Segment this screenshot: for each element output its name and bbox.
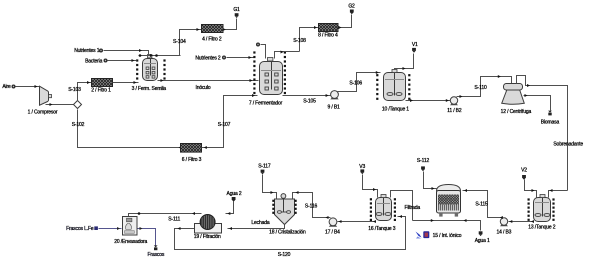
svg-text:S-112: S-112 <box>417 158 430 164</box>
tank 16 / Tanque 3 <box>370 198 372 200</box>
svg-text:S-111: S-111 <box>168 217 180 223</box>
svg-text:10 /Tanque 1: 10 /Tanque 1 <box>382 107 409 113</box>
tank 10 / Tanque 1 <box>376 74 378 76</box>
wire Aire to compressor <box>16 86 40 88</box>
annotation icons (blue) <box>416 232 422 238</box>
output port V2 <box>522 175 526 178</box>
svg-text:4 / Fitro 2: 4 / Fitro 2 <box>202 36 222 42</box>
svg-text:Nutrientes 2: Nutrientes 2 <box>195 56 221 62</box>
wire S-104 seed vent to Filtro 2 <box>180 30 202 56</box>
wire S-106 pump B1 to Tanque 1 <box>338 73 381 92</box>
wire Frascos out of envasadora <box>138 229 156 246</box>
svg-text:Sobrenadante: Sobrenadante <box>553 141 583 147</box>
output port Frascos <box>154 245 158 247</box>
wire Agua 2 into filter 19 <box>226 202 234 214</box>
wire Tanque 2 to pump B3 <box>509 221 534 223</box>
wire S-103 junction to Filtro 1 <box>78 83 92 102</box>
svg-text:Frascos L.Fe: Frascos L.Fe <box>66 226 94 232</box>
svg-text:S-117: S-117 <box>258 164 271 170</box>
tank 13 / Tanque 2 <box>528 198 530 200</box>
svg-text:Filtrada: Filtrada <box>405 205 421 211</box>
wire compressor to junction <box>46 104 74 106</box>
wire Sobrenadante into Tanque 2 <box>549 191 568 198</box>
svg-text:2 / Fitro 1: 2 / Fitro 1 <box>91 87 111 93</box>
wire Lechada crystallizer to filter 19 <box>228 225 285 229</box>
wire V3 vent of Tanque 3 <box>363 175 378 198</box>
wire Inoculo seed fermentor to fermentor 7 <box>158 80 259 82</box>
svg-text:9 / B1: 9 / B1 <box>328 104 341 110</box>
svg-text:G1: G1 <box>233 7 240 13</box>
seed fermentor 3 / Ferm. Semila <box>136 59 138 61</box>
svg-text:S-104: S-104 <box>173 39 186 45</box>
filter 8 / Filtro 4 <box>319 24 339 32</box>
svg-text:S-115: S-115 <box>475 202 488 208</box>
wire Nutrientes 2 <box>227 57 254 59</box>
wire Filtro 2 to G1 <box>223 19 237 30</box>
wire S-117 into crystallizer <box>263 175 277 199</box>
wire Nutrientes 1 <box>104 51 149 56</box>
svg-text:S-106: S-106 <box>349 81 362 87</box>
svg-text:S-107: S-107 <box>218 122 231 128</box>
input port Agua 2 <box>232 197 236 200</box>
wire S-102 junction down to Filtro 3 <box>78 110 181 148</box>
svg-text:S-120: S-120 <box>278 252 291 258</box>
svg-text:15 / Int. iónico: 15 / Int. iónico <box>433 233 462 239</box>
centrifuge 12 / Centrifuga <box>504 84 523 91</box>
filter 4 / Filtro 2 <box>202 25 224 33</box>
svg-text:Agua 2: Agua 2 <box>227 191 242 197</box>
svg-text:16 /Tanque 3: 16 /Tanque 3 <box>368 226 395 232</box>
wire Frascos L.Fe to envasadora <box>99 228 122 230</box>
svg-text:V3: V3 <box>359 164 365 170</box>
svg-text:17 / B4: 17 / B4 <box>325 229 340 235</box>
svg-text:1 / Compresor: 1 / Compresor <box>28 110 58 116</box>
ion exchange column 15 / Int. Ionico <box>437 185 461 192</box>
svg-text:S-105: S-105 <box>303 99 316 105</box>
svg-text:S-116: S-116 <box>305 204 318 210</box>
wire S-105 fermentor to pump B1 <box>283 95 331 97</box>
wire air Filtro 1 to seed fermentor <box>113 82 139 84</box>
wire Tanque 1 vent to V1 <box>395 54 414 70</box>
wire Tanque 3 to pump B4 <box>338 221 376 223</box>
svg-text:S-102: S-102 <box>72 122 85 128</box>
crystallizer 18 / Cristalizacion <box>275 199 295 225</box>
svg-text:V1: V1 <box>412 42 418 48</box>
junction node (air splitter) <box>74 101 82 109</box>
svg-text:18 / Cristalización: 18 / Cristalización <box>269 229 306 235</box>
filter 2 / Filtro 1 <box>92 79 113 87</box>
svg-text:Lechada: Lechada <box>251 220 270 226</box>
wire supernatant centrifuge to Sobrenadante <box>517 76 568 191</box>
svg-text:3 / Ferm. Semila: 3 / Ferm. Semila <box>132 86 167 92</box>
wire S-112 into Int. Ionico <box>424 172 437 189</box>
compressor 1 / Compresor <box>40 86 49 105</box>
wire fermentor vent to S-108 <box>275 52 300 59</box>
svg-text:Bacteria: Bacteria <box>85 58 103 64</box>
svg-text:19 / Fitración: 19 / Fitración <box>194 234 221 240</box>
input port Nutrientes 2 <box>222 56 226 60</box>
wire S-120 filtrate recycle to Tanque 3 <box>175 217 406 250</box>
rotary filter 19 / Filtracion <box>195 224 222 234</box>
wire S-110 pump B2 to centrifuge <box>457 77 512 97</box>
pump 14 / B3 <box>500 224 508 226</box>
filling machine 20 / Envasadora <box>123 217 138 236</box>
input port S-112 <box>421 166 425 169</box>
wire top feed to fermentor <box>261 45 266 59</box>
wire S-108 to Filtro 4 <box>300 28 319 52</box>
input port Aire <box>12 85 16 89</box>
output port V3 <box>360 169 364 172</box>
svg-text:S-103: S-103 <box>68 87 81 93</box>
svg-text:6 / Fitro 3: 6 / Fitro 3 <box>182 157 202 163</box>
wire S-115 pump B3 to Int. Ionico <box>463 191 502 218</box>
svg-text:Inóculo: Inóculo <box>195 85 210 91</box>
wire S-107 Filtro 3 to fermentor bottom <box>202 96 258 148</box>
wire S-111 filter 19 to envasadora <box>129 214 202 218</box>
wire Filtro 4 to G2 <box>339 15 352 28</box>
svg-text:S-110: S-110 <box>474 85 487 91</box>
output port G1 <box>235 13 239 16</box>
svg-text:20 /Envasadora: 20 /Envasadora <box>114 239 147 245</box>
input port Bacteria <box>104 59 108 63</box>
wire seed fermentor top header <box>139 55 181 57</box>
fermentor 7 / Fermentador <box>253 51 255 53</box>
svg-text:S-108: S-108 <box>293 38 306 44</box>
svg-text:11 / B2: 11 / B2 <box>447 108 462 114</box>
wire Biomasa centrifuge out <box>524 96 551 111</box>
wire Agua 1 into Int. Ionico bottom <box>413 221 481 231</box>
input port fermentor top feed <box>256 43 260 47</box>
input port S-117 <box>261 170 265 173</box>
pump 11 / B2 <box>450 103 458 105</box>
input port Agua 1 <box>479 231 483 234</box>
wire Tanque 1 to pump B2 <box>406 100 451 102</box>
output port V1 <box>412 48 416 51</box>
svg-text:Biomasa: Biomasa <box>541 119 560 125</box>
wire Bacteria <box>108 60 137 62</box>
svg-text:V2: V2 <box>521 168 527 174</box>
svg-text:13 /Tanque 2: 13 /Tanque 2 <box>528 224 555 230</box>
input port Nutrientes 1 <box>99 49 103 53</box>
input port Frascos L.Fe <box>94 226 98 230</box>
svg-text:Frascos: Frascos <box>148 252 165 258</box>
wire V2 vent of Tanque 2 <box>525 180 537 198</box>
wire Filtrada Tanque 3 top to Int. Ionico <box>391 191 413 221</box>
output port Biomasa <box>548 111 552 113</box>
svg-text:Aire: Aire <box>2 84 11 90</box>
pump 9 / B1 <box>330 97 338 99</box>
wire S-116 pump B4 to crystallizer <box>293 193 331 218</box>
svg-text:14 / B3: 14 / B3 <box>497 230 512 236</box>
filter 6 / Filtro 3 <box>181 144 202 153</box>
svg-text:7 / Fermentador: 7 / Fermentador <box>249 101 283 107</box>
output port G2 <box>350 10 354 13</box>
pump 17 / B4 <box>329 225 337 227</box>
svg-text:8 / Fitro 4: 8 / Fitro 4 <box>318 33 338 39</box>
svg-text:Agua 1: Agua 1 <box>475 238 490 244</box>
svg-text:Nutrientes 1: Nutrientes 1 <box>74 48 100 54</box>
svg-text:G2: G2 <box>348 4 355 10</box>
svg-text:12 / Centrifuga: 12 / Centrifuga <box>501 109 532 115</box>
